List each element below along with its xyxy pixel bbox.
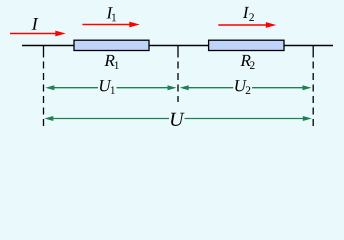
label U — [171, 113, 185, 126]
voltage dimension U2 — [187, 87, 304, 89]
node A (left measurement tick, dashed extension) — [43, 46, 45, 131]
label I2 — [243, 7, 254, 21]
node C (right measurement tick, dashed extension) — [312, 46, 314, 131]
current arrow I1 — [82, 22, 139, 28]
current arrow I — [10, 31, 66, 37]
label R1 — [104, 55, 118, 69]
label U1 — [100, 80, 115, 94]
label U2 — [235, 80, 250, 94]
label R2 — [240, 55, 254, 69]
label I1 — [106, 7, 116, 21]
current arrow I2 — [218, 22, 276, 28]
resistor R1 — [74, 40, 149, 50]
node B (middle junction tick, dashed extension) — [177, 46, 179, 103]
voltage dimension U1 — [53, 87, 169, 89]
voltage dimension U — [52, 118, 306, 120]
resistor R2 — [209, 40, 284, 50]
label I — [32, 18, 39, 30]
wire — [22, 45, 333, 47]
